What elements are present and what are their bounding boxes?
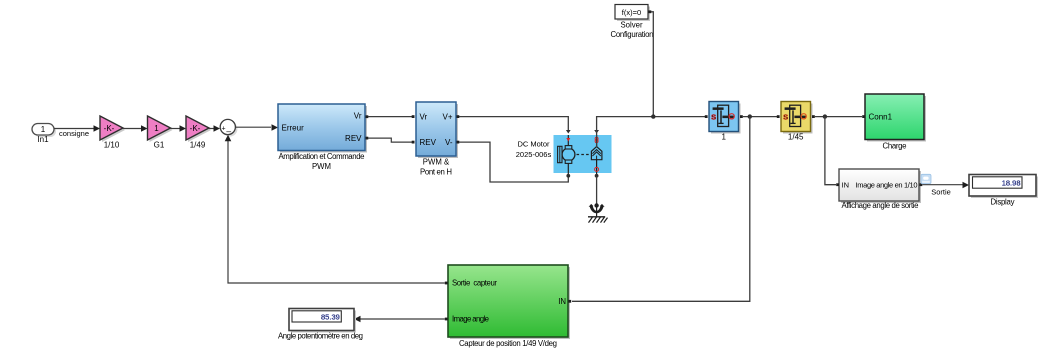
- wire sum to Erreur: [235, 124, 278, 131]
- svg-text:1: 1: [154, 124, 159, 133]
- svg-text:Image angle: Image angle: [452, 315, 489, 324]
- wire gearbox1 to gearbox2: [743, 116, 778, 118]
- svg-text:Configuration: Configuration: [611, 30, 654, 39]
- wire inertia to shaft line: [597, 117, 706, 147]
- wire gain 1/10 to gain G1: [123, 125, 148, 132]
- mechanical rotational reference ground: [588, 203, 608, 222]
- svg-text:2025-006s: 2025-006s: [516, 150, 552, 159]
- svg-text:1: 1: [721, 132, 726, 141]
- svg-text:consigne: consigne: [59, 129, 89, 138]
- junction node after gearbox1: [748, 114, 752, 118]
- svg-text:1/10: 1/10: [104, 141, 120, 150]
- inertia icon: [591, 135, 602, 176]
- dashed connection motor to inertia: [577, 154, 591, 156]
- svg-text:Angle potentiomètre en deg: Angle potentiomètre en deg: [278, 332, 363, 341]
- junction solver node: [651, 114, 655, 118]
- port nub inertia top: [594, 130, 599, 134]
- wire Sortie to Display: [922, 182, 969, 197]
- wire inertia to ground: [596, 176, 598, 204]
- wire gain 1/49 to sum: [209, 125, 220, 132]
- svg-text:+: +: [222, 125, 226, 132]
- svg-text:Solver: Solver: [620, 21, 643, 30]
- wire V+ to motor: [459, 117, 568, 131]
- svg-text:PWM: PWM: [312, 162, 331, 171]
- svg-text:IN: IN: [842, 181, 850, 190]
- selection highlight DC Motor: [554, 135, 612, 173]
- inport In1: [32, 124, 56, 145]
- gearbox 1: [705, 102, 743, 142]
- svg-text:1: 1: [41, 125, 46, 134]
- svg-text:Erreur: Erreur: [282, 124, 305, 133]
- svg-text:REV: REV: [420, 138, 437, 147]
- svg-text:Pont en H: Pont en H: [420, 168, 452, 177]
- svg-text:In1: In1: [37, 135, 49, 144]
- port dot inertia bottom: [595, 174, 599, 178]
- svg-text:Vr: Vr: [420, 113, 428, 122]
- gearbox 1/45: [777, 102, 815, 142]
- wire solver to shaft: [651, 12, 653, 117]
- wire REV: [368, 138, 415, 143]
- svg-text:DC Motor: DC Motor: [517, 140, 550, 149]
- svg-text:Sortie: Sortie: [931, 188, 951, 197]
- label DC Motor 2025-006s: [516, 140, 552, 160]
- port dot motor bottom: [566, 174, 570, 178]
- svg-text:Affichage angle de sortie: Affichage angle de sortie: [842, 201, 919, 210]
- subsystem Affichage angle de sortie: [836, 169, 922, 210]
- svg-text:–: –: [226, 126, 231, 136]
- svg-text:Vr: Vr: [354, 112, 362, 121]
- wire shaft down to capteur IN: [572, 117, 750, 302]
- svg-text:IN: IN: [558, 297, 566, 306]
- solver configuration block: [611, 5, 654, 39]
- svg-text:PWM &: PWM &: [423, 158, 450, 167]
- DC motor icon: [558, 135, 575, 176]
- wire gain G1 to gain 1/49: [171, 125, 187, 132]
- svg-text:Image angle en 1/10: Image angle en 1/10: [856, 181, 918, 190]
- subsystem Amplification et Commande PWM: [278, 104, 368, 171]
- subsystem PWM & Pont en H: [416, 102, 459, 177]
- svg-text:REV: REV: [345, 134, 362, 143]
- svg-text:Sortie capteur: Sortie capteur: [452, 279, 497, 288]
- port nub motor top: [566, 130, 571, 134]
- svg-text:Amplification et Commande: Amplification et Commande: [279, 152, 365, 161]
- svg-text:G1: G1: [154, 141, 165, 150]
- wire gearbox2 to Charge: [815, 116, 862, 118]
- svg-text:-K-: -K-: [190, 124, 201, 133]
- svg-text:85.39: 85.39: [321, 313, 340, 322]
- display Display: [969, 175, 1038, 207]
- svg-text:1/45: 1/45: [788, 132, 804, 141]
- junction node after gearbox2: [823, 114, 827, 118]
- svg-text:V+: V+: [442, 113, 452, 122]
- gain G1: [148, 116, 173, 150]
- svg-text:1/49: 1/49: [190, 141, 206, 150]
- sum block: [220, 119, 237, 136]
- svg-text:Charge: Charge: [883, 142, 907, 151]
- svg-text:S: S: [783, 112, 788, 121]
- badge icon: [921, 174, 931, 184]
- gain 1/49: [186, 116, 211, 150]
- svg-text:-K-: -K-: [104, 124, 115, 133]
- wire Vr: [368, 115, 415, 118]
- wire down to affichage IN: [825, 117, 836, 185]
- subsystem Capteur de position: [445, 265, 571, 348]
- display Angle potentiometre: [278, 309, 363, 341]
- svg-text:V-: V-: [445, 138, 453, 147]
- subsystem Charge: [862, 94, 926, 151]
- wire In1 to gain 1/10: [54, 125, 100, 138]
- wire V- to motor: [459, 142, 568, 182]
- wire Image angle to display: [354, 316, 445, 323]
- svg-text:18.98: 18.98: [1002, 179, 1021, 188]
- gain 1/10: [100, 116, 125, 150]
- svg-text:Display: Display: [991, 198, 1015, 207]
- svg-text:Capteur de position 1/49 V/deg: Capteur de position 1/49 V/deg: [459, 339, 557, 348]
- svg-text:f(x)=0: f(x)=0: [622, 8, 641, 17]
- svg-text:Conn1: Conn1: [869, 113, 893, 122]
- wire feedback Sortie capteur to sum: [225, 135, 445, 283]
- svg-text:S: S: [711, 112, 716, 121]
